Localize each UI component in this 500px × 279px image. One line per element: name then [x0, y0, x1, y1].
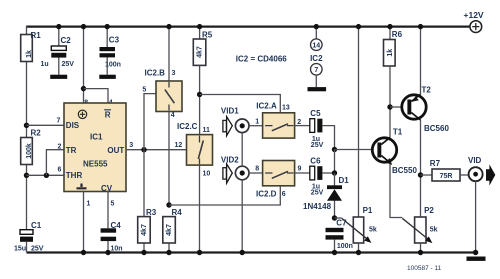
svg-text:1: 1: [255, 119, 259, 126]
svg-text:NE555: NE555: [83, 159, 108, 168]
svg-text:1u: 1u: [41, 61, 49, 68]
node DIS junction: [24, 123, 29, 128]
svg-text:8: 8: [255, 166, 259, 173]
svg-text:12: 12: [175, 142, 183, 149]
svg-text:75R: 75R: [440, 173, 453, 180]
resistor R7: [430, 159, 460, 181]
wire T1 emitter down to P2 wiper: [390, 164, 402, 218]
capacitor C5: [310, 109, 324, 149]
wire junction to R7: [421, 174, 433, 176]
svg-text:10n: 10n: [111, 246, 123, 253]
svg-text:5k: 5k: [369, 227, 377, 234]
svg-text:4k7: 4k7: [166, 224, 173, 236]
wire OUT node up to IC2.B pin5: [144, 94, 156, 150]
capacitor C1: [14, 221, 44, 253]
svg-text:IC2.B: IC2.B: [145, 69, 166, 78]
connector VID out: [468, 156, 495, 186]
svg-text:VID1: VID1: [221, 107, 239, 116]
wire T2 emitter to rail: [420, 27, 422, 95]
svg-text:1k: 1k: [26, 50, 33, 58]
svg-text:1: 1: [87, 201, 91, 208]
svg-text:R1: R1: [31, 31, 42, 40]
analog switch IC2.A: [256, 101, 294, 138]
wire C6 to node: [322, 172, 334, 174]
wire branch to pin4: [84, 89, 109, 103]
svg-text:CV: CV: [101, 184, 113, 193]
capacitor C3: [100, 24, 121, 75]
node TR junction: [44, 173, 49, 178]
svg-text:VID2: VID2: [221, 155, 239, 164]
resistor R5: [193, 24, 212, 66]
svg-text:5k: 5k: [430, 227, 438, 234]
node R5/IC2.A control junction: [197, 92, 202, 97]
wire R5 to IC2.C pin11: [199, 65, 201, 134]
svg-text:9: 9: [298, 166, 302, 173]
node OUT junction: [141, 147, 146, 152]
wire VID1/VID2 shield to ground: [241, 133, 243, 253]
svg-text:BC550: BC550: [392, 166, 417, 175]
wire R7 to VID out: [460, 174, 468, 176]
resistor R1: [21, 31, 42, 61]
ground under C3: [99, 75, 116, 79]
svg-text:6: 6: [282, 191, 286, 198]
wire IC2.A pin2 to C5: [295, 125, 310, 127]
svg-text:IC2.A: IC2.A: [256, 101, 277, 110]
node T2 collector / R7 junction: [418, 172, 423, 177]
svg-text:+12V: +12V: [464, 10, 484, 20]
svg-text:OUT: OUT: [107, 146, 124, 155]
svg-text:10: 10: [203, 171, 211, 178]
svg-text:100k: 100k: [26, 143, 33, 159]
transistor T2 BC560: [402, 86, 450, 134]
resistor R2: [21, 129, 42, 165]
wire to P1 wiper: [335, 217, 342, 219]
diode D1 1N4148: [303, 173, 349, 218]
svg-text:IC1: IC1: [90, 133, 103, 142]
svg-text:IC2: IC2: [310, 54, 323, 63]
svg-text:R6: R6: [392, 30, 403, 39]
svg-text:C1: C1: [31, 221, 42, 230]
potentiometer P1: [342, 24, 377, 255]
wire to IC2.A pin13: [200, 95, 281, 113]
svg-text:11: 11: [203, 127, 211, 134]
svg-text:15u: 15u: [14, 246, 26, 253]
resistor R4: [163, 208, 182, 243]
svg-text:7: 7: [314, 67, 318, 74]
svg-text:IC2.D: IC2.D: [256, 189, 277, 198]
svg-text:C5: C5: [310, 109, 321, 118]
node T1 base junction: [332, 147, 337, 152]
ground under IC2 pin7: [308, 87, 327, 91]
svg-text:R: R: [105, 110, 111, 119]
wire VID2 to IC2.D pin8: [249, 172, 263, 174]
wire IC2.C pin10 to ground rail: [199, 165, 201, 252]
svg-text:100n: 100n: [337, 243, 353, 250]
svg-text:25V: 25V: [311, 189, 324, 196]
wire OUT pin3 to IC2.C pin12: [126, 149, 187, 151]
wire OUT node down to R3: [143, 150, 145, 217]
svg-text:BC560: BC560: [424, 124, 449, 133]
svg-text:TR: TR: [66, 146, 77, 155]
svg-text:D1: D1: [339, 176, 350, 185]
svg-text:IC2 = CD4066: IC2 = CD4066: [236, 55, 287, 64]
connector VID1: [221, 107, 249, 136]
svg-text:4: 4: [171, 112, 175, 119]
svg-text:R2: R2: [31, 129, 42, 138]
analog switch IC2.C: [177, 122, 213, 165]
wire node to T1 base: [335, 149, 372, 151]
svg-text:P1: P1: [363, 206, 373, 215]
svg-text:THR: THR: [66, 171, 83, 180]
svg-text:13: 13: [282, 104, 290, 111]
svg-text:25V: 25V: [31, 246, 44, 253]
svg-text:6: 6: [58, 167, 62, 174]
wire C5 to node column: [322, 126, 334, 150]
wire IC1 pin5 to C4: [107, 192, 109, 253]
wire left column R1/R2/C1 vertical: [26, 26, 28, 253]
svg-text:5: 5: [142, 87, 146, 94]
node pin8/pin4 junction: [81, 86, 86, 91]
wire IC2.D pin9 to C6: [295, 172, 310, 174]
svg-text:R4: R4: [172, 208, 183, 217]
svg-text:2: 2: [297, 119, 301, 126]
svg-text:T1: T1: [393, 128, 403, 137]
wire VID shield to ground: [475, 181, 477, 252]
svg-text:IC2.C: IC2.C: [177, 122, 198, 131]
svg-text:7: 7: [57, 117, 61, 124]
svg-text:100587 - 11: 100587 - 11: [407, 265, 442, 272]
svg-text:3: 3: [129, 142, 133, 149]
wire bottom ground rail: [27, 251, 476, 253]
svg-text:1N4148: 1N4148: [303, 202, 332, 211]
wire THR to IC1 pin6: [27, 174, 65, 176]
analog switch IC2.B: [145, 69, 183, 112]
wire R3 R4 to ground rail: [144, 243, 169, 253]
wire IC2.B pin3 from rail: [168, 27, 170, 81]
IC2 power pin 14: [310, 24, 323, 87]
svg-text:C3: C3: [109, 36, 120, 45]
svg-text:3: 3: [172, 70, 176, 77]
svg-text:C2: C2: [61, 36, 72, 45]
svg-text:5: 5: [111, 201, 115, 208]
resistor R3: [138, 208, 157, 243]
svg-text:25V: 25V: [62, 61, 75, 68]
svg-text:4k7: 4k7: [196, 46, 203, 58]
capacitor C2: [41, 24, 75, 75]
svg-text:R3: R3: [146, 208, 157, 217]
node THR junction: [24, 173, 29, 178]
svg-text:14: 14: [312, 43, 320, 50]
svg-text:R7: R7: [430, 159, 441, 168]
wire VID1 to IC2.A pin1: [249, 125, 263, 127]
ground under C2: [50, 75, 67, 79]
node T2 base junction: [387, 104, 392, 109]
svg-text:DIS: DIS: [66, 121, 80, 130]
svg-text:C7: C7: [336, 219, 347, 228]
wire top supply rail: [27, 25, 470, 27]
node C6/D1 junction: [332, 170, 337, 175]
capacitor C6: [310, 157, 324, 197]
resistor R6: [384, 24, 403, 66]
svg-text:P2: P2: [424, 206, 434, 215]
wire IC1 supply pin8 drop: [83, 27, 85, 103]
svg-text:C6: C6: [310, 157, 321, 166]
wire T2 collector down: [420, 120, 422, 218]
op-amp U1 IC1 NE555 body: [64, 103, 126, 193]
+12V supply: [464, 10, 484, 32]
node R4/IC2.D control junction: [166, 202, 171, 207]
wire node down to C6 junction: [334, 150, 336, 174]
wire control line to IC2.D pin6: [169, 186, 280, 205]
wire to T2 base: [390, 106, 401, 108]
svg-text:2: 2: [58, 144, 62, 151]
wire IC2.B pin4 down to R4 node: [168, 112, 170, 206]
wire DIS to IC1 pin7: [27, 124, 65, 126]
capacitor C7: [326, 219, 353, 256]
node D1/C7/P1 junction: [332, 215, 337, 220]
connector VID2: [221, 155, 249, 183]
transistor T1 BC550: [372, 128, 417, 176]
svg-text:4k7: 4k7: [141, 224, 148, 236]
wire TR branch to IC1 pin2: [46, 150, 64, 176]
svg-text:T2: T2: [422, 86, 432, 95]
svg-text:100n: 100n: [105, 62, 121, 69]
potentiometer P2: [402, 206, 437, 255]
wire IC1 pin1 to ground rail: [83, 192, 85, 253]
capacitor C4: [101, 221, 123, 253]
analog switch IC2.D: [256, 161, 295, 199]
ground at VID out: [467, 257, 486, 261]
wire R6 to T1 collector: [389, 66, 391, 137]
svg-text:25V: 25V: [311, 142, 324, 149]
svg-text:1k: 1k: [387, 49, 394, 57]
svg-text:VID: VID: [468, 156, 482, 165]
